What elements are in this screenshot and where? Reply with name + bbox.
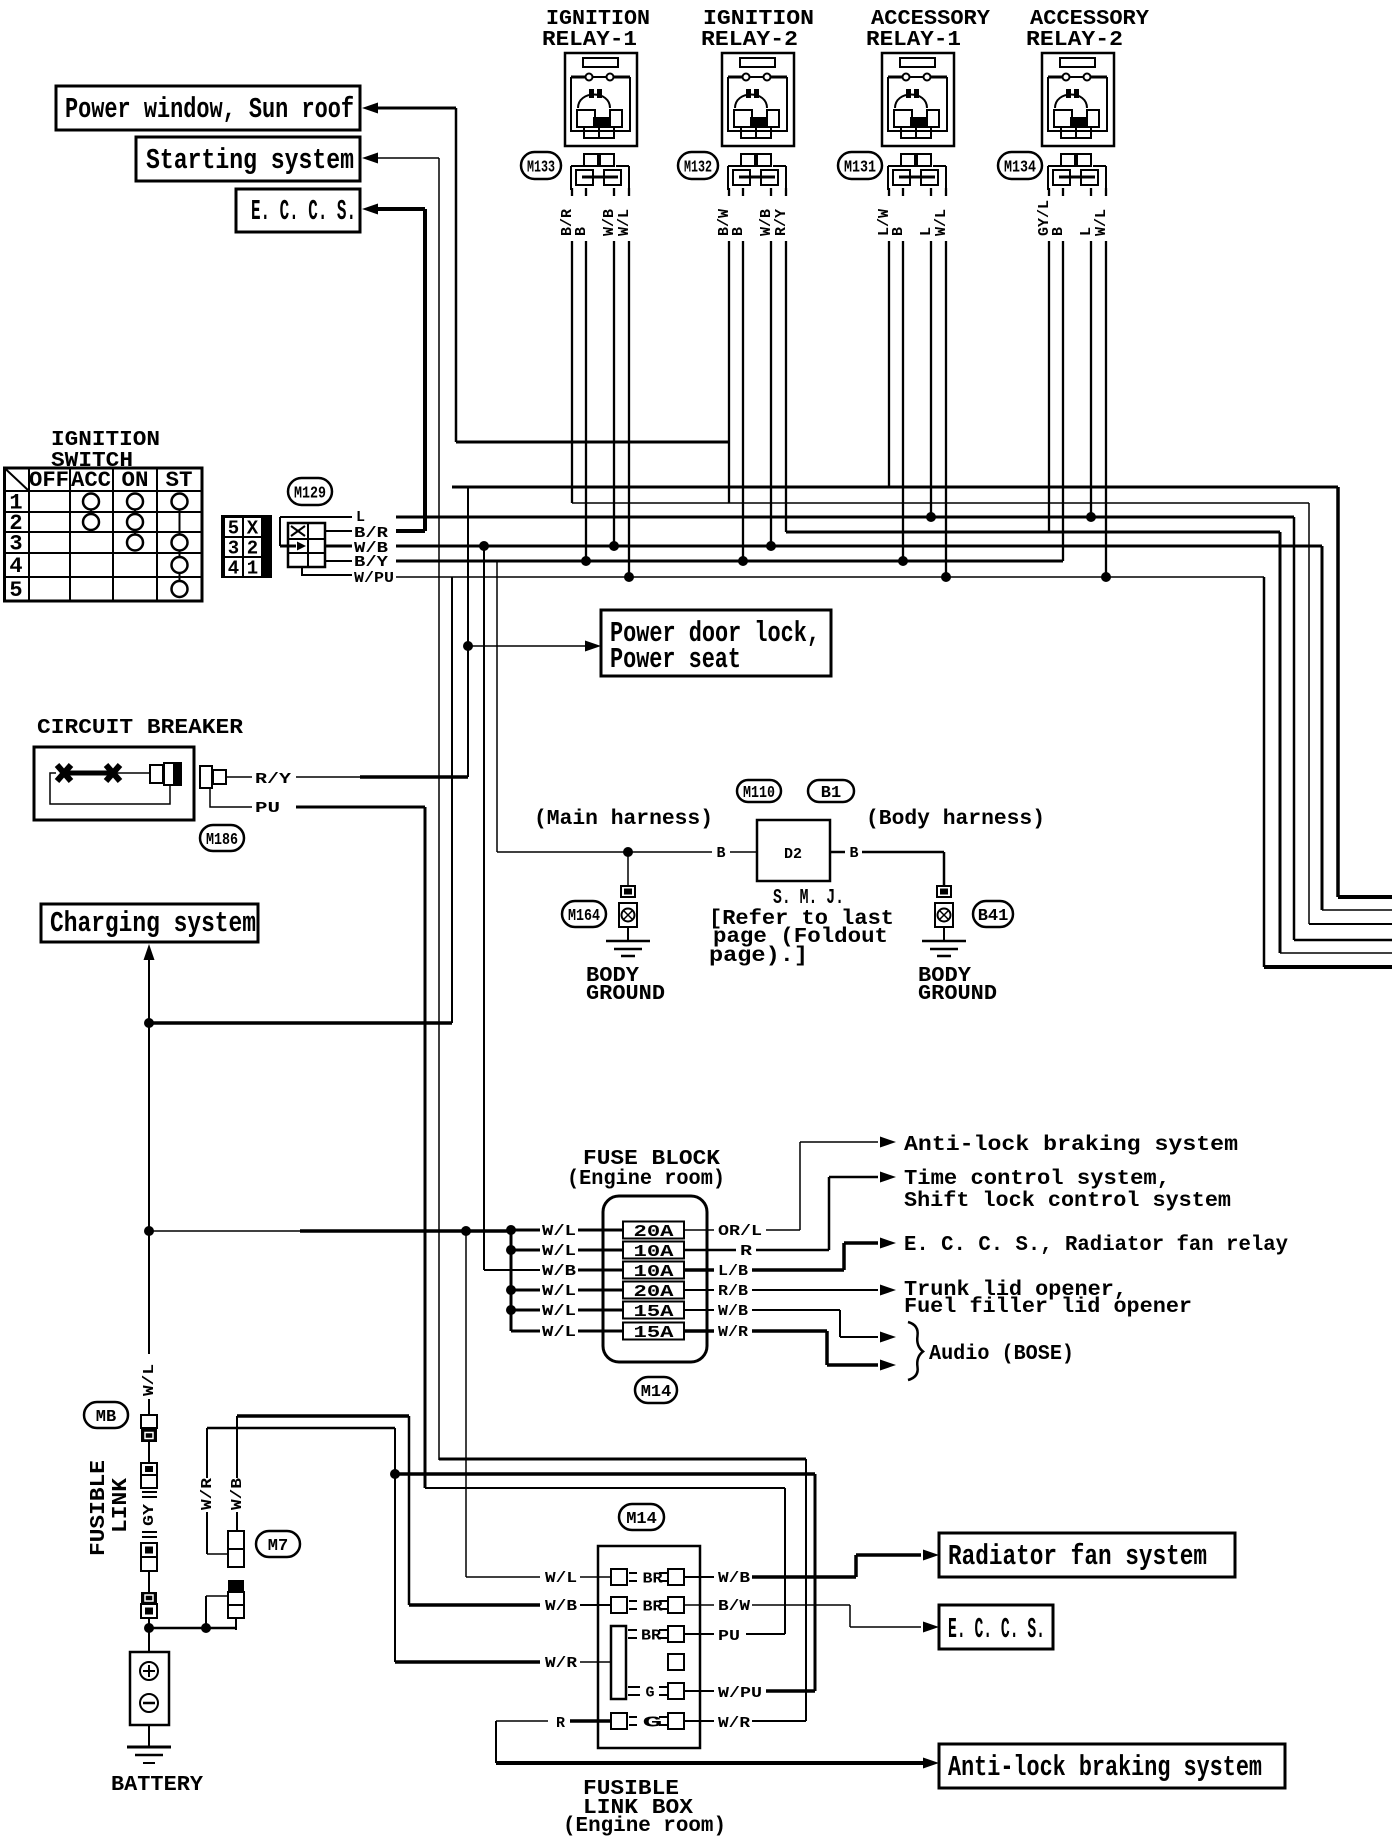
svg-text:Audio (BOSE): Audio (BOSE) (929, 1343, 1074, 1366)
svg-text:E. C. C. S.: E. C. C. S. (251, 195, 356, 228)
svg-text:W/L: W/L (545, 1570, 577, 1587)
svg-text:5: 5 (9, 578, 22, 603)
svg-text:W/PU: W/PU (354, 570, 394, 587)
svg-text:ST: ST (166, 468, 193, 493)
svg-text:E. C. C. S.: E. C. C. S. (948, 1613, 1045, 1646)
svg-text:GROUND: GROUND (586, 983, 665, 1006)
svg-text:20A: 20A (634, 1223, 675, 1242)
svg-text:M134: M134 (1004, 159, 1036, 178)
svg-text:Fuel filler lid opener: Fuel filler lid opener (904, 1296, 1192, 1319)
svg-text:B1: B1 (821, 784, 841, 803)
svg-text:20A: 20A (634, 1283, 675, 1302)
svg-text:Time control system,: Time control system, (904, 1168, 1170, 1191)
svg-text:S. M. J.: S. M. J. (773, 887, 844, 910)
svg-text:4: 4 (228, 558, 239, 580)
svg-text:GY: GY (141, 1504, 158, 1526)
svg-text:10A: 10A (634, 1263, 675, 1282)
svg-text:BR: BR (641, 1628, 661, 1645)
svg-text:W/PU: W/PU (718, 1685, 762, 1702)
svg-text:B/Y: B/Y (354, 554, 388, 571)
svg-text:LINK: LINK (110, 1478, 133, 1533)
svg-text:ON: ON (122, 468, 149, 493)
svg-text:BATTERY: BATTERY (111, 1774, 203, 1797)
svg-text:CIRCUIT BREAKER: CIRCUIT BREAKER (37, 717, 243, 740)
svg-text:RELAY-1: RELAY-1 (866, 29, 961, 52)
svg-text:OFF: OFF (29, 468, 69, 493)
svg-text:FUSIBLE: FUSIBLE (88, 1460, 111, 1556)
svg-text:E. C. C. S., Radiator fan rel: E. C. C. S., Radiator fan relay (904, 1234, 1288, 1257)
svg-text:B: B (730, 227, 747, 236)
svg-text:B/W: B/W (718, 1598, 750, 1615)
svg-text:M133: M133 (527, 159, 555, 178)
svg-text:W/L: W/L (542, 1243, 576, 1260)
svg-text:M132: M132 (684, 159, 712, 178)
svg-text:M7: M7 (268, 1537, 288, 1556)
svg-text:W/R: W/R (718, 1715, 750, 1732)
svg-text:M14: M14 (626, 1510, 657, 1529)
svg-text:RELAY-2: RELAY-2 (1026, 29, 1123, 52)
svg-text:3: 3 (9, 532, 22, 557)
svg-text:5: 5 (228, 518, 239, 540)
svg-text:B: B (573, 227, 590, 236)
svg-text:(Engine room): (Engine room) (567, 1168, 725, 1191)
svg-text:L: L (356, 509, 365, 526)
svg-text:B41: B41 (978, 907, 1009, 926)
svg-text:Radiator fan system: Radiator fan system (948, 1540, 1207, 1573)
svg-text:page).]: page).] (709, 945, 808, 968)
svg-text:Anti-lock braking system: Anti-lock braking system (904, 1134, 1238, 1157)
svg-text:Starting system: Starting system (146, 144, 354, 177)
svg-text:(Engine room): (Engine room) (563, 1815, 726, 1836)
svg-text:MB: MB (96, 1408, 116, 1427)
svg-text:4: 4 (9, 554, 22, 579)
svg-text:Anti-lock braking system: Anti-lock braking system (948, 1751, 1262, 1784)
svg-text:Power window, Sun roof: Power window, Sun roof (65, 93, 354, 126)
svg-text:PU: PU (718, 1628, 740, 1645)
svg-text:W/B: W/B (718, 1303, 748, 1320)
svg-text:15A: 15A (634, 1303, 675, 1322)
svg-text:W/L: W/L (141, 1364, 158, 1396)
svg-text:3: 3 (228, 538, 239, 560)
svg-text:IGNITION: IGNITION (546, 8, 650, 31)
svg-text:X: X (247, 518, 259, 540)
svg-text:B: B (849, 845, 858, 862)
svg-text:W/L: W/L (542, 1324, 576, 1341)
svg-text:R: R (740, 1243, 752, 1260)
svg-text:IGNITION: IGNITION (51, 429, 160, 452)
svg-text:W/L: W/L (542, 1283, 576, 1300)
svg-text:M14: M14 (641, 1383, 672, 1402)
svg-text:W/L: W/L (542, 1303, 576, 1320)
svg-text:OR/L: OR/L (718, 1223, 762, 1240)
svg-text:W/L: W/L (933, 209, 950, 236)
svg-text:RELAY-1: RELAY-1 (542, 29, 637, 52)
svg-text:R/Y: R/Y (255, 771, 291, 788)
svg-text:W/L: W/L (1093, 209, 1110, 236)
svg-text:W/B: W/B (542, 1263, 576, 1280)
svg-text:2: 2 (247, 538, 258, 560)
svg-text:R/Y: R/Y (773, 209, 790, 236)
svg-text:M110: M110 (743, 784, 775, 803)
svg-text:Shift lock control system: Shift lock control system (904, 1190, 1231, 1213)
svg-text:R: R (556, 1715, 565, 1732)
svg-text:ACCESSORY: ACCESSORY (1030, 8, 1149, 31)
svg-text:D2: D2 (784, 846, 802, 863)
svg-text:Power seat: Power seat (610, 643, 741, 676)
svg-text:M164: M164 (568, 907, 600, 926)
svg-text:Charging system: Charging system (50, 907, 256, 940)
svg-text:W/B: W/B (229, 1478, 246, 1510)
svg-text:W/R: W/R (545, 1655, 577, 1672)
svg-text:G: G (645, 1685, 654, 1702)
svg-text:ACCESSORY: ACCESSORY (871, 8, 990, 31)
svg-text:W/R: W/R (718, 1324, 748, 1341)
svg-text:(Main harness): (Main harness) (534, 808, 713, 831)
svg-text:L/B: L/B (718, 1263, 748, 1280)
svg-text:W/B: W/B (545, 1598, 577, 1615)
svg-text:W/L: W/L (542, 1223, 576, 1240)
svg-text:RELAY-2: RELAY-2 (701, 29, 798, 52)
svg-text:10A: 10A (634, 1243, 675, 1262)
svg-text:IGNITION: IGNITION (703, 8, 814, 31)
svg-text:W/B: W/B (718, 1570, 750, 1587)
svg-text:W/R: W/R (199, 1478, 216, 1510)
svg-text:(Body harness): (Body harness) (866, 808, 1045, 831)
svg-text:GROUND: GROUND (918, 983, 997, 1006)
svg-text:M131: M131 (844, 159, 876, 178)
svg-text:B: B (1050, 227, 1067, 236)
svg-text:B: B (890, 227, 907, 236)
svg-text:M186: M186 (206, 831, 238, 850)
svg-text:W/L: W/L (616, 209, 633, 236)
svg-text:B: B (716, 845, 725, 862)
svg-text:R/B: R/B (718, 1283, 748, 1300)
svg-text:1: 1 (247, 558, 258, 580)
svg-text:15A: 15A (634, 1324, 675, 1343)
svg-text:PU: PU (255, 800, 280, 817)
svg-text:ACC: ACC (71, 468, 111, 493)
svg-text:M129: M129 (294, 485, 326, 504)
